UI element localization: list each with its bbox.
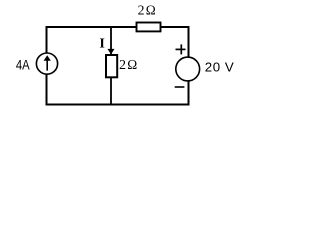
wire outer loop (47, 27, 189, 105)
current arrow I (108, 49, 115, 55)
svg-text:4A: 4A (16, 57, 30, 72)
plus sign (176, 48, 186, 50)
svg-text:Ω: Ω (146, 3, 156, 18)
svg-text:20 V: 20 V (205, 59, 235, 74)
voltage source V1 circle (176, 57, 200, 81)
resistor R1 (top, horizontal) (137, 23, 161, 32)
current source I1 circle (36, 53, 57, 74)
svg-text:2: 2 (119, 57, 126, 72)
resistor R2 (middle, vertical) (106, 55, 117, 77)
svg-text:I: I (99, 37, 104, 52)
wire middle branch (110, 27, 112, 105)
svg-text:2: 2 (138, 3, 145, 18)
svg-text:Ω: Ω (127, 57, 137, 72)
current source arrow (46, 60, 48, 71)
minus sign (175, 86, 185, 88)
